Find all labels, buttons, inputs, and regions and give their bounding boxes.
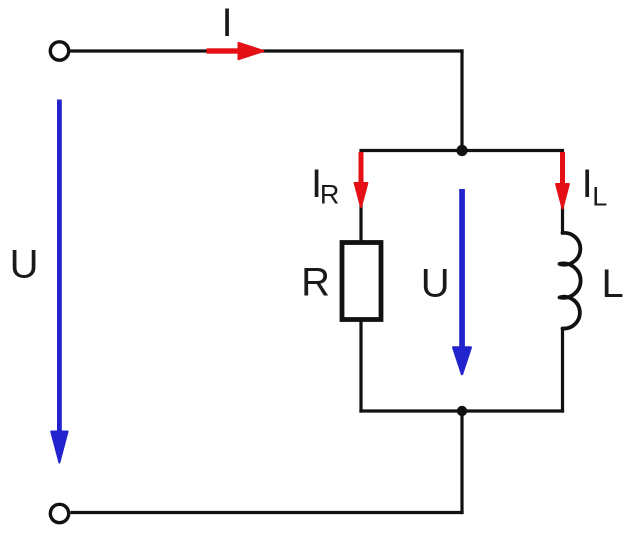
svg-text:L: L xyxy=(601,262,623,306)
svg-text:I: I xyxy=(582,162,593,206)
svg-text:R: R xyxy=(320,180,340,210)
svg-text:I: I xyxy=(221,1,232,45)
svg-text:U: U xyxy=(10,243,39,287)
svg-text:U: U xyxy=(421,261,450,305)
svg-text:L: L xyxy=(592,182,607,212)
svg-text:R: R xyxy=(301,261,330,305)
